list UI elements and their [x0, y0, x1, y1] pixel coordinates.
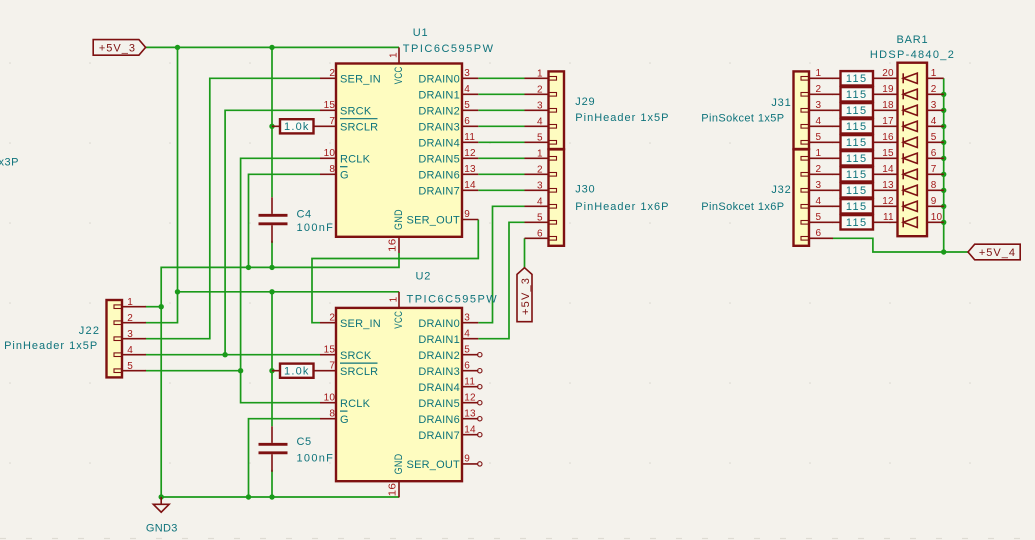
LED bar BAR1 body — [898, 63, 928, 237]
U2 unconnected pin circle DRAIN3 — [478, 369, 482, 373]
svg-text:6: 6 — [931, 148, 937, 159]
svg-text:16: 16 — [387, 238, 398, 252]
J29 pin 3 mark — [549, 109, 557, 113]
svg-text:11: 11 — [464, 376, 475, 387]
svg-text:J31: J31 — [771, 97, 791, 109]
J22 pin 1 mark — [114, 305, 122, 309]
J29 pin 2 mark — [549, 93, 557, 97]
J29 pin 1 stub — [525, 77, 549, 79]
junction BAR1 cathode 5 — [941, 140, 946, 145]
svg-text:SRCLR: SRCLR — [340, 121, 378, 133]
wire J30 pin4 to U2 DRAIN0 — [478, 206, 524, 322]
BAR1 pin 15 right stub — [927, 157, 944, 159]
resistor R95 leads — [833, 205, 898, 207]
junction node G1/GND — [246, 265, 251, 270]
svg-text:11: 11 — [883, 212, 894, 223]
svg-text:13: 13 — [464, 408, 476, 419]
junction node +5V B — [269, 45, 274, 50]
resistor R1 body — [280, 119, 314, 133]
J32 pin 5 stub — [809, 221, 833, 223]
J22 pin 4 stub — [122, 354, 146, 356]
svg-text:15: 15 — [324, 344, 336, 355]
resistor R25 body — [841, 87, 874, 101]
svg-text:J32: J32 — [771, 184, 791, 196]
BAR1 LED 2 triangle — [903, 89, 917, 99]
svg-text:DRAIN5: DRAIN5 — [418, 398, 460, 410]
svg-text:DRAIN6: DRAIN6 — [418, 414, 460, 426]
svg-text:5: 5 — [464, 100, 470, 111]
svg-text:1: 1 — [388, 296, 399, 302]
junction node J22p1/GND — [159, 304, 164, 309]
BAR1 LED 8 triangle — [903, 185, 917, 195]
svg-text:SER_OUT: SER_OUT — [407, 215, 460, 227]
svg-text:115: 115 — [846, 217, 868, 229]
svg-text:+5V_4: +5V_4 — [979, 247, 1016, 259]
svg-text:4: 4 — [816, 116, 822, 127]
svg-text:9: 9 — [931, 196, 937, 207]
J31 pin 5 mark — [801, 141, 809, 145]
svg-text:4: 4 — [464, 84, 470, 95]
U2 unconnected pin circle DRAIN2 — [478, 353, 482, 357]
U1 pin 12 (DRAIN5) stub — [462, 157, 478, 159]
wire U1 DRAIN6 to J30 pin2 — [478, 173, 524, 175]
svg-text:115: 115 — [846, 137, 868, 149]
U2 pin 1 (VCC) stub — [398, 292, 400, 308]
svg-text:8: 8 — [329, 408, 335, 419]
svg-text:DRAIN4: DRAIN4 — [418, 137, 460, 149]
wire U1 G to GND net — [249, 174, 321, 267]
ground GND3 triangle — [153, 504, 169, 512]
wire +5V vertical x272 to C4 — [271, 47, 273, 197]
svg-text:4: 4 — [931, 116, 937, 127]
svg-text:5: 5 — [537, 132, 543, 143]
svg-text:5: 5 — [816, 212, 822, 223]
junction BAR1 cathode 10 — [941, 220, 946, 225]
J29 pin 3 stub — [525, 109, 549, 111]
U1 pin 4 (DRAIN1) stub — [462, 93, 478, 95]
capacitor C4 top lead — [271, 197, 273, 214]
svg-text:C4: C4 — [297, 209, 312, 221]
wire U1 DRAIN2 to J29 pin3 — [478, 109, 524, 111]
U1 pin 15 (SRCK) stub — [320, 109, 336, 111]
J30 pin 4 mark — [549, 205, 557, 209]
junction BAR1 cathode 3 — [941, 108, 946, 113]
U2 pin 8 (G) stub — [320, 418, 336, 420]
svg-text:15: 15 — [324, 100, 336, 111]
U2 pin 12 (DRAIN5) stub — [462, 402, 478, 404]
svg-text:5: 5 — [537, 212, 543, 223]
junction node GND rail B — [246, 494, 251, 499]
power +5V_3 label (top left) — [93, 40, 145, 56]
svg-text:1: 1 — [388, 52, 399, 58]
svg-text:DRAIN1: DRAIN1 — [418, 89, 460, 101]
svg-text:PinSokcet 1x6P: PinSokcet 1x6P — [701, 201, 784, 213]
junction node R2/+5V — [269, 368, 274, 373]
J22 pin 4 mark — [114, 353, 122, 357]
J31 pin 2 mark — [801, 93, 809, 97]
svg-text:1.0k: 1.0k — [284, 121, 310, 133]
BAR1 LED 5 cathode bar — [902, 137, 904, 147]
svg-text:1.0k: 1.0k — [284, 366, 310, 378]
svg-text:13: 13 — [464, 164, 476, 175]
svg-text:GND: GND — [393, 209, 405, 230]
resistor R75 leads — [833, 173, 898, 175]
svg-text:2: 2 — [127, 313, 133, 324]
BAR1 LED 6 triangle — [903, 153, 917, 163]
J29 pin 2 stub — [525, 93, 549, 95]
resistor R15 leads — [833, 77, 898, 79]
J32 pin 4 stub — [809, 205, 833, 207]
svg-text:4: 4 — [464, 328, 470, 339]
J31 pin 3 mark — [801, 109, 809, 113]
svg-text:115: 115 — [846, 121, 868, 133]
U2 pin 4 (DRAIN1) stub — [462, 338, 478, 340]
wire J22 pin2 to +5V — [146, 292, 178, 323]
svg-text:DRAIN3: DRAIN3 — [418, 121, 460, 133]
svg-text:3: 3 — [127, 329, 133, 340]
U2 unconnected pin circle SER_OUT — [478, 462, 482, 466]
svg-text:19: 19 — [882, 84, 894, 95]
svg-text:G: G — [340, 169, 349, 181]
wire U1 SER_OUT to U2 SER_IN — [312, 220, 478, 323]
junction node C4/GND — [269, 265, 274, 270]
svg-text:12: 12 — [464, 392, 476, 403]
power +5V_3 label (vertical near J30) — [517, 268, 532, 322]
J22 pin 2 stub — [122, 322, 146, 324]
svg-text:2: 2 — [329, 312, 335, 323]
svg-text:SER_IN: SER_IN — [340, 73, 381, 85]
svg-text:17: 17 — [882, 116, 894, 127]
svg-text:13: 13 — [882, 180, 894, 191]
J29 pin 4 mark — [549, 125, 557, 129]
BAR1 LED 1 cathode bar — [902, 73, 904, 83]
U1 pin 3 (DRAIN0) stub — [462, 77, 478, 79]
J32 pin 6 stub — [809, 237, 833, 239]
svg-text:DRAIN6: DRAIN6 — [418, 169, 460, 181]
svg-text:115: 115 — [846, 185, 868, 197]
svg-text:5: 5 — [127, 361, 133, 372]
svg-text:115: 115 — [846, 201, 868, 213]
BAR1 LED 4 cathode bar — [902, 121, 904, 131]
J30 pin 2 stub — [525, 173, 549, 175]
wire +5V vertical x272 to C5 — [271, 292, 273, 427]
wire SRCK U1 down — [225, 110, 320, 354]
svg-text:3: 3 — [931, 100, 937, 111]
U2 pin 16 (GND) stub — [398, 481, 400, 497]
svg-text:20: 20 — [882, 68, 894, 79]
BAR1 pin 13 right stub — [927, 189, 944, 191]
BAR1 LED 4 triangle — [903, 121, 917, 131]
wire J30 pin6 to +5V_3 — [524, 238, 526, 267]
svg-text:VCC: VCC — [393, 66, 405, 84]
svg-text:SRCLR: SRCLR — [340, 366, 378, 378]
resistor R95 body — [841, 199, 874, 213]
resistor R15 body — [841, 71, 874, 85]
U2 unconnected pin circle DRAIN7 — [478, 433, 482, 437]
svg-text:100nF: 100nF — [297, 452, 335, 464]
BAR1 pin 12 right stub — [927, 205, 944, 207]
svg-text:6: 6 — [816, 228, 822, 239]
BAR1 LED 1 triangle — [903, 73, 917, 83]
resistor R55 body — [841, 135, 874, 149]
junction node +5V C — [175, 289, 180, 294]
wire RCLK bus U1 to U2 — [241, 158, 320, 402]
junction node GND rail A — [159, 494, 164, 499]
junction node RCLK — [238, 368, 243, 373]
svg-text:4: 4 — [537, 196, 543, 207]
BAR1 LED 5 triangle — [903, 137, 917, 147]
svg-text:14: 14 — [464, 424, 476, 435]
svg-text:2: 2 — [816, 164, 822, 175]
svg-text:8: 8 — [931, 180, 937, 191]
BAR1 LED 6 cathode bar — [902, 153, 904, 163]
J29 pin 5 mark — [549, 141, 557, 145]
J31 pin 3 stub — [809, 109, 833, 111]
U1 pin 9 (SER_OUT) stub — [462, 219, 478, 221]
svg-text:J30: J30 — [575, 184, 595, 196]
junction BAR1 cathode 7 — [941, 172, 946, 177]
svg-text:14: 14 — [464, 180, 476, 191]
svg-text:1: 1 — [931, 68, 937, 79]
J30 pin 3 stub — [525, 189, 549, 191]
svg-text:14: 14 — [882, 164, 894, 175]
svg-text:2: 2 — [329, 68, 335, 79]
resistor R35 leads — [833, 109, 898, 111]
resistor R105 leads — [833, 221, 898, 223]
BAR1 pin 19 right stub — [927, 93, 944, 95]
ground GND3 stub — [160, 497, 162, 504]
svg-text:+5V_3: +5V_3 — [520, 277, 532, 315]
BAR1 pin 17 right stub — [927, 125, 944, 127]
U2 pin 10 (RCLK) stub — [320, 402, 336, 404]
svg-text:x3P: x3P — [0, 157, 19, 169]
op-amp U2 body — [336, 308, 462, 481]
BAR1 LED 10 triangle — [903, 217, 917, 227]
svg-text:1: 1 — [537, 68, 543, 79]
svg-text:DRAIN0: DRAIN0 — [418, 318, 460, 330]
wire SER_IN net U1 to J22 pin3 — [146, 78, 321, 338]
J30 pin 2 mark — [549, 173, 557, 177]
U1 pin 14 (DRAIN7) stub — [462, 189, 478, 191]
junction node R1/+5V — [269, 124, 274, 129]
resistor R105 body — [841, 215, 874, 229]
BAR1 pin 14 right stub — [927, 173, 944, 175]
svg-text:DRAIN3: DRAIN3 — [418, 366, 460, 378]
wire U1 DRAIN3 to J29 pin4 — [478, 125, 524, 127]
svg-text:115: 115 — [846, 105, 868, 117]
BAR1 LED 10 cathode bar — [902, 217, 904, 227]
J31 pin 5 stub — [809, 141, 833, 143]
wire +5V vertical x177 — [177, 47, 179, 291]
wire U1 DRAIN1 to J29 pin2 — [478, 93, 524, 95]
J30 pin 6 mark — [549, 237, 557, 241]
BAR1 pin 16 right stub — [927, 141, 944, 143]
svg-text:18: 18 — [882, 100, 894, 111]
svg-text:PinHeader 1x6P: PinHeader 1x6P — [575, 201, 669, 213]
U2 pin 2 (SER_IN) stub — [320, 322, 336, 324]
J31 pin 2 stub — [809, 93, 833, 95]
wire C5 bottom to GND rail — [271, 470, 273, 497]
svg-text:8: 8 — [329, 164, 335, 175]
J32 pin 1 mark — [801, 157, 809, 161]
svg-text:10: 10 — [931, 212, 943, 223]
U1 pin 1 (VCC) stub — [398, 47, 400, 63]
BAR1 LED 9 cathode bar — [902, 201, 904, 211]
svg-text:DRAIN2: DRAIN2 — [418, 105, 460, 117]
capacitor C5 top lead — [271, 426, 273, 443]
BAR1 LED 7 triangle — [903, 169, 917, 179]
junction node +5V A — [175, 45, 180, 50]
U2 pin 3 (DRAIN0) stub — [462, 322, 478, 324]
J31 pin 4 stub — [809, 125, 833, 127]
J32 pin 6 mark — [801, 237, 809, 241]
U2 SRCLR overline — [340, 362, 378, 364]
J30 pin 3 mark — [549, 189, 557, 193]
svg-text:2: 2 — [537, 164, 543, 175]
svg-text:DRAIN2: DRAIN2 — [418, 350, 460, 362]
svg-text:4: 4 — [816, 196, 822, 207]
svg-text:TPIC6C595PW: TPIC6C595PW — [407, 294, 499, 306]
connector J30 body — [549, 149, 565, 245]
BAR1 LED 2 cathode bar — [902, 89, 904, 99]
resistor R1 leads — [272, 125, 336, 127]
svg-text:7: 7 — [931, 164, 937, 175]
U1 pin 13 (DRAIN6) stub — [462, 173, 478, 175]
wire U1 DRAIN4 to J29 pin5 — [478, 141, 524, 143]
J22 pin 1 stub — [122, 306, 146, 308]
wire U1 GND net to J22 pin1 and GND rail — [161, 253, 399, 497]
U1 pin 2 (SER_IN) stub — [320, 77, 336, 79]
resistor R85 body — [841, 183, 874, 197]
svg-text:115: 115 — [846, 169, 868, 181]
svg-text:J29: J29 — [575, 96, 595, 108]
wire J30 pin5 to U2 DRAIN1 — [478, 222, 524, 338]
svg-text:16: 16 — [387, 483, 398, 497]
svg-text:PinHeader 1x5P: PinHeader 1x5P — [4, 340, 98, 352]
svg-text:4: 4 — [127, 345, 133, 356]
J29 pin 4 stub — [525, 125, 549, 127]
J32 pin 2 stub — [809, 173, 833, 175]
U1 pin 11 (DRAIN4) stub — [462, 141, 478, 143]
J30 pin 5 stub — [525, 221, 549, 223]
svg-text:3: 3 — [537, 100, 543, 111]
svg-text:115: 115 — [846, 89, 868, 101]
resistor R2 leads — [272, 370, 336, 372]
J29 pin 5 stub — [525, 141, 549, 143]
svg-text:10: 10 — [324, 392, 336, 403]
J22 pin 2 mark — [114, 321, 122, 325]
svg-text:115: 115 — [846, 153, 868, 165]
U1 pin 6 (DRAIN3) stub — [462, 125, 478, 127]
svg-text:PinSokcet 1x5P: PinSokcet 1x5P — [701, 113, 784, 125]
svg-text:J22: J22 — [79, 325, 100, 337]
junction node SRCK — [222, 352, 227, 357]
svg-text:SER_OUT: SER_OUT — [407, 459, 460, 471]
svg-text:RCLK: RCLK — [340, 398, 371, 410]
resistor R65 body — [841, 151, 874, 165]
svg-text:4: 4 — [537, 116, 543, 127]
junction node +5V D — [269, 289, 274, 294]
svg-text:12: 12 — [882, 196, 894, 207]
capacitor C5 plates — [259, 444, 288, 453]
svg-text:DRAIN4: DRAIN4 — [418, 382, 460, 394]
svg-text:5: 5 — [931, 132, 937, 143]
svg-text:SRCK: SRCK — [340, 350, 372, 362]
J30 pin 1 mark — [549, 157, 557, 161]
J30 pin 6 stub — [525, 237, 549, 239]
junction BAR1 cathode 2 — [941, 92, 946, 97]
connector J29 body — [549, 71, 565, 149]
svg-text:U2: U2 — [416, 270, 432, 282]
svg-text:1: 1 — [816, 148, 822, 159]
svg-text:DRAIN1: DRAIN1 — [418, 334, 460, 346]
svg-text:TPIC6C595PW: TPIC6C595PW — [403, 43, 495, 55]
junction BAR1 cathode 8 — [941, 188, 946, 193]
capacitor C4 plates — [259, 215, 288, 224]
svg-text:DRAIN5: DRAIN5 — [418, 153, 460, 165]
J22 pin 3 stub — [122, 338, 146, 340]
J32 pin 1 stub — [809, 157, 833, 159]
svg-text:5: 5 — [816, 132, 822, 143]
svg-text:BAR1: BAR1 — [897, 34, 929, 46]
U2 pin 9 (SER_OUT) stub — [462, 463, 478, 465]
svg-text:DRAIN7: DRAIN7 — [418, 430, 460, 442]
svg-text:VCC: VCC — [393, 311, 405, 329]
svg-text:1: 1 — [816, 68, 822, 79]
svg-text:9: 9 — [464, 209, 470, 220]
svg-text:3: 3 — [464, 68, 470, 79]
svg-text:SRCK: SRCK — [340, 105, 372, 117]
U2 pin 15 (SRCK) stub — [320, 354, 336, 356]
svg-text:10: 10 — [324, 148, 336, 159]
U2 pin 6 (DRAIN3) stub — [462, 370, 478, 372]
resistor R45 body — [841, 119, 874, 133]
op-amp U1 body — [336, 64, 462, 237]
svg-text:RCLK: RCLK — [340, 153, 371, 165]
U2 pin 5 (DRAIN2) stub — [462, 354, 478, 356]
svg-text:2: 2 — [931, 84, 937, 95]
svg-text:115: 115 — [846, 73, 868, 85]
J32 pin 5 mark — [801, 221, 809, 225]
U1 SRCLR overline — [340, 118, 378, 120]
U1 pin 8 (G) stub — [320, 173, 336, 175]
svg-text:GND3: GND3 — [146, 523, 178, 535]
svg-text:16: 16 — [882, 132, 894, 143]
BAR1 LED 3 triangle — [903, 105, 917, 115]
resistor R45 leads — [833, 125, 898, 127]
svg-text:6: 6 — [464, 360, 470, 371]
connector J32 body — [794, 149, 810, 245]
J32 pin 4 mark — [801, 205, 809, 209]
BAR1 pin 18 right stub — [927, 109, 944, 111]
wire J22 pin1 to GND — [146, 306, 162, 308]
junction BAR1 cathode 4 — [941, 124, 946, 129]
junction node +5V_4 — [941, 249, 946, 254]
connector J31 body — [794, 71, 810, 149]
junction BAR1 cathode 9 — [941, 204, 946, 209]
U1 pin 10 (RCLK) stub — [320, 157, 336, 159]
BAR1 LED 7 cathode bar — [902, 169, 904, 179]
wire C4 bottom to GND net — [271, 241, 273, 268]
wire U1 DRAIN0 to J29 pin1 — [478, 77, 524, 79]
resistor R65 leads — [833, 157, 898, 159]
svg-text:3: 3 — [816, 100, 822, 111]
capacitor C4 bottom lead — [271, 225, 273, 243]
svg-text:7: 7 — [329, 360, 335, 371]
capacitor C5 bottom lead — [271, 454, 273, 472]
svg-text:C5: C5 — [297, 436, 312, 448]
wire SRCK bus J22 pin4 to U2 — [146, 354, 321, 356]
